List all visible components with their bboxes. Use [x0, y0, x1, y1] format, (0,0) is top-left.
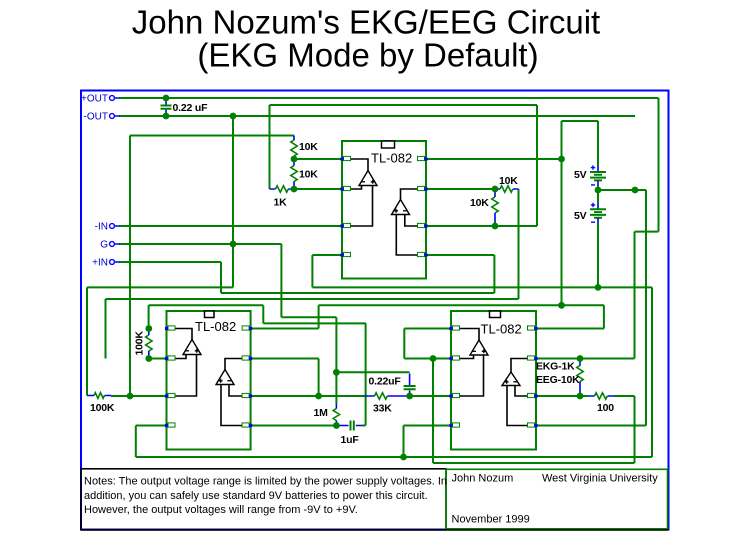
- svg-text:EEG-10K: EEG-10K: [536, 374, 580, 386]
- svg-text:TL-082: TL-082: [481, 322, 522, 337]
- svg-text:100: 100: [597, 402, 614, 414]
- svg-text:John Nozum: John Nozum: [452, 472, 514, 484]
- svg-text:0.22uF: 0.22uF: [369, 376, 402, 388]
- svg-text:10K: 10K: [299, 141, 318, 153]
- svg-text:100K: 100K: [90, 402, 115, 414]
- svg-text:Notes: The output voltage rang: Notes: The output voltage range is limit…: [84, 475, 447, 487]
- svg-text:John Nozum's EKG/EEG Circuit: John Nozum's EKG/EEG Circuit: [132, 4, 600, 41]
- svg-text:G: G: [100, 240, 108, 251]
- svg-text:10K: 10K: [499, 175, 518, 187]
- svg-text:0.22 uF: 0.22 uF: [173, 102, 209, 114]
- svg-text:addition, you can safely use s: addition, you can safely use standard 9V…: [84, 490, 428, 502]
- svg-text:West Virginia University: West Virginia University: [542, 472, 658, 484]
- svg-text:-OUT: -OUT: [84, 112, 108, 123]
- svg-text:1K: 1K: [274, 196, 288, 208]
- svg-text:1M: 1M: [314, 407, 329, 419]
- svg-text:1uF: 1uF: [341, 434, 360, 446]
- svg-text:-IN: -IN: [95, 222, 108, 233]
- svg-text:10K: 10K: [299, 168, 318, 180]
- svg-text:November 1999: November 1999: [452, 513, 530, 525]
- svg-text:5V: 5V: [574, 169, 587, 181]
- svg-text:TL-082: TL-082: [371, 151, 412, 166]
- svg-text:10K: 10K: [470, 197, 489, 209]
- svg-text:(EKG Mode by Default): (EKG Mode by Default): [197, 37, 538, 74]
- svg-text:5V: 5V: [574, 210, 587, 222]
- svg-text:However, the output voltages w: However, the output voltages will range …: [84, 504, 358, 516]
- svg-text:+OUT: +OUT: [81, 94, 108, 105]
- svg-text:33K: 33K: [373, 403, 392, 415]
- svg-text:100K: 100K: [134, 331, 146, 356]
- svg-text:+IN: +IN: [92, 258, 108, 269]
- svg-text:EKG-1K: EKG-1K: [536, 361, 575, 373]
- svg-text:TL-082: TL-082: [195, 319, 236, 334]
